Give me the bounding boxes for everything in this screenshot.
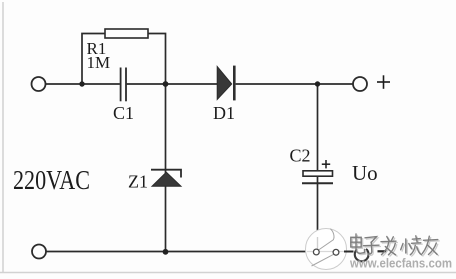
node C junction <box>315 81 320 86</box>
wire R1 branch up-left <box>82 34 105 85</box>
capacitor C1 <box>121 68 126 102</box>
capacitor C2 <box>302 171 333 184</box>
wire top rail left (input to C1) <box>46 83 120 85</box>
terminal output plus <box>353 77 367 91</box>
watermark text main copy <box>351 234 438 255</box>
svg-text:Uo: Uo <box>352 161 378 185</box>
terminal input bottom <box>32 245 46 259</box>
wire node to C2 top <box>317 84 319 171</box>
svg-text:1M: 1M <box>87 53 111 72</box>
label C2 polarity + <box>322 160 330 168</box>
label output + <box>377 75 390 89</box>
wire bottom rail <box>46 251 310 253</box>
svg-text:www.elecfans.com: www.elecfans.com <box>349 256 452 271</box>
label output - <box>378 250 387 252</box>
svg-text:D1: D1 <box>213 103 235 123</box>
svg-text:220VAC: 220VAC <box>13 165 90 195</box>
resistor R1 <box>105 29 148 38</box>
svg-text:Z1: Z1 <box>128 172 148 192</box>
terminal input top <box>32 77 46 91</box>
watermark logo circle <box>306 229 347 270</box>
wire node to Z1 cathode <box>165 84 167 174</box>
wire C2 bottom down <box>317 177 319 239</box>
watermark text shadow copy <box>352 235 439 256</box>
node D junction <box>163 249 169 255</box>
diode D1 <box>217 66 235 101</box>
wire bottom right stub <box>344 251 354 253</box>
node A junction <box>79 81 84 86</box>
scan edge line left <box>2 2 4 273</box>
wire Z1 anode to bottom rail <box>165 186 167 252</box>
wire C1 to D1 <box>127 83 218 85</box>
wire D1 to output terminal <box>236 83 353 85</box>
node B junction <box>163 81 169 87</box>
scan edge line bottom <box>0 272 456 274</box>
wire R1 branch right-down <box>148 34 166 85</box>
zener diode Z1 <box>151 170 181 187</box>
svg-text:C2: C2 <box>290 146 311 166</box>
terminal output minus (horseshoe) <box>355 249 369 261</box>
svg-text:C1: C1 <box>113 103 134 123</box>
